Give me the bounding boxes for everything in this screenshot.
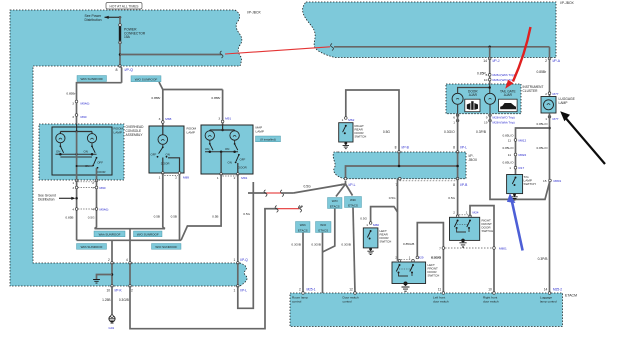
ground right rear switch <box>344 142 347 145</box>
svg-text:0.85Br: 0.85Br <box>211 96 220 100</box>
pin 1 R17 <box>514 166 517 169</box>
pin band2 10 IPK <box>111 285 114 288</box>
tag W/I SUNROOF r2 <box>77 244 107 250</box>
op overhead console dashed box <box>39 124 124 180</box>
svg-text:M24: M24 <box>473 211 479 215</box>
wire H2 sunroof bus <box>77 239 181 241</box>
svg-text:AJAR: AJAR <box>504 93 513 97</box>
wire branch to tailgate switch <box>516 128 550 175</box>
wire 0.85R to cluster <box>489 59 491 85</box>
svg-text:0.85Br: 0.85Br <box>66 92 75 96</box>
svg-text:0.85Br: 0.85Br <box>151 96 160 100</box>
pin rightfront 1 <box>469 215 472 218</box>
pin 8 M28-I with trip <box>488 74 491 77</box>
wire fuse top stub <box>119 16 121 25</box>
svg-text:1: 1 <box>342 118 344 122</box>
svg-text:W/O: W/O <box>320 223 327 227</box>
pin 8 I/P-Q <box>119 65 122 68</box>
svg-text:door switch: door switch <box>483 300 499 304</box>
lamp luggage box <box>541 97 556 114</box>
switch left front door box <box>392 262 426 284</box>
connector dashed leftfront <box>401 258 412 260</box>
ground G01 chassis <box>109 316 115 322</box>
wire dark right of red <box>281 192 293 194</box>
break squiggle right lobe <box>331 44 334 51</box>
pin leftfront 2 <box>398 260 401 263</box>
svg-text:0.3P/B: 0.3P/B <box>476 130 487 134</box>
pin ETACM 10 <box>493 292 496 295</box>
connector dashed M54 <box>78 208 95 210</box>
svg-text:I/P-J: I/P-J <box>493 59 500 63</box>
pin 2 I/P-A <box>548 57 551 60</box>
switch room arm <box>162 146 164 148</box>
wire With ETACS lower chain <box>302 233 304 294</box>
svg-text:JBOX: JBOX <box>469 158 478 162</box>
ground left front switch <box>404 282 408 286</box>
svg-text:2: 2 <box>545 59 547 63</box>
svg-text:0.3G/B: 0.3G/B <box>291 243 301 247</box>
svg-text:lamp control: lamp control <box>540 300 557 304</box>
wire map bus1 <box>205 151 238 153</box>
junction luggage branch <box>548 127 551 130</box>
svg-text:2: 2 <box>234 176 236 180</box>
wire band internal <box>346 166 458 179</box>
svg-text:OFF: OFF <box>97 161 103 165</box>
lamp room <box>158 135 168 145</box>
wire long bottom return <box>130 209 265 329</box>
svg-text:0.5G: 0.5G <box>360 217 367 221</box>
pin 3 M54 upper <box>75 100 78 103</box>
wire map exit2 <box>237 163 239 174</box>
wire tail gate 0.3P/B down <box>490 114 550 200</box>
pin cluster 1 <box>456 119 459 122</box>
junction band b <box>456 165 459 168</box>
svg-text:control: control <box>292 300 302 304</box>
wire cluster internal feed <box>489 84 491 93</box>
svg-text:SWITCH: SWITCH <box>482 229 494 233</box>
svg-text:W/O SUNROOF: W/O SUNROOF <box>135 77 158 81</box>
pin console 2 <box>95 179 98 182</box>
wire console lamp bus <box>60 131 92 133</box>
connector dashed console <box>78 181 95 183</box>
svg-text:M28-I(With Trip): M28-I(With Trip) <box>493 121 515 125</box>
svg-text:ON: ON <box>166 153 170 157</box>
tag W/O ETACS upper <box>328 198 343 209</box>
pin 7 connector <box>442 247 445 250</box>
wire to chassis ground <box>111 286 113 316</box>
wire pin7 diagonal left <box>293 181 345 193</box>
junction cluster <box>488 86 491 89</box>
pin M54 b <box>95 208 98 211</box>
switch map right arm <box>234 143 236 145</box>
wire luggage down <box>549 113 551 293</box>
connector dashed M801 <box>445 247 493 249</box>
svg-text:DOOR: DOOR <box>238 165 247 169</box>
wire door-ajar lamp down <box>457 104 459 113</box>
svg-text:M812: M812 <box>519 138 527 142</box>
wire console feed <box>76 124 78 132</box>
wire to room lamp M88 <box>162 90 164 127</box>
wire console lamp stubs <box>59 132 61 134</box>
switch map left arm <box>209 143 211 145</box>
junction console <box>75 130 78 133</box>
pin band bottom 7 <box>398 177 401 180</box>
svg-text:I/P-A: I/P-A <box>553 59 561 63</box>
svg-text:M54(I): M54(I) <box>100 207 109 211</box>
svg-text:1: 1 <box>545 117 547 121</box>
svg-text:ETACS: ETACS <box>330 204 340 208</box>
wire luggage feed <box>549 59 551 97</box>
ground distribution <box>93 280 100 284</box>
op cluster box <box>446 84 521 114</box>
svg-text:0.5G: 0.5G <box>383 130 391 134</box>
svg-text:1: 1 <box>466 211 468 215</box>
svg-text:0.5G: 0.5G <box>243 212 250 216</box>
svg-text:0.85B: 0.85B <box>65 216 73 220</box>
break squiggle etacs2 l <box>275 206 278 213</box>
svg-text:I/P-L: I/P-L <box>460 146 467 150</box>
tag W/O SUNROOF <box>131 76 161 82</box>
svg-text:G01: G01 <box>109 326 115 330</box>
switch right rear door box <box>339 123 353 142</box>
wire see-power branch <box>105 16 121 18</box>
pin ETACM 14 M25-2 <box>548 292 551 295</box>
svg-text:I/P-JBOX: I/P-JBOX <box>560 1 575 5</box>
lamp DOOR AJAR indicator <box>452 93 463 104</box>
svg-text:M88: M88 <box>165 117 171 121</box>
wire console bus2 <box>60 156 92 158</box>
lamp map right <box>230 131 239 140</box>
svg-text:I/P-K: I/P-K <box>115 288 123 292</box>
svg-text:0.3P/B: 0.3P/B <box>538 257 549 261</box>
pin 3 M91 <box>221 120 224 123</box>
pin band top 8 I/P-B <box>398 151 401 154</box>
ground tailgate switch <box>513 193 516 196</box>
svg-text:0.5G: 0.5G <box>389 196 396 200</box>
pin map 2 <box>237 173 240 176</box>
svg-text:M60: M60 <box>373 223 379 227</box>
svg-text:10: 10 <box>488 288 492 292</box>
svg-text:I/P-B: I/P-B <box>460 183 468 187</box>
svg-text:0.3G/O: 0.3G/O <box>444 130 455 134</box>
wire w/o-sunroof branch <box>159 82 163 90</box>
switch T/G arm <box>515 177 517 179</box>
wire console left drop <box>76 181 78 241</box>
pin 3 M90 upper <box>75 114 78 117</box>
svg-text:M90: M90 <box>100 186 106 190</box>
svg-text:I/P-B: I/P-B <box>402 146 410 150</box>
svg-text:1: 1 <box>217 176 219 180</box>
connector dashed rightfront <box>459 214 469 216</box>
svg-text:I/P-JBOX: I/P-JBOX <box>247 11 262 15</box>
svg-text:19: 19 <box>484 121 488 125</box>
pin M54 a <box>75 208 78 211</box>
wire stub to W/O ETACS tag <box>336 184 346 197</box>
svg-text:HOT AT ALL TIMES: HOT AT ALL TIMES <box>110 4 140 8</box>
svg-text:I/P-Q: I/P-Q <box>240 258 248 262</box>
svg-text:M91: M91 <box>225 117 231 121</box>
wire map feed <box>222 125 224 130</box>
wire rightfront pin1 to etacm 10 <box>470 206 494 293</box>
wire H1 sunroof bus <box>95 228 166 230</box>
wire With ETACS chain <box>353 208 355 294</box>
wire W/O ETACS chain <box>323 209 335 253</box>
junction band a <box>398 165 401 168</box>
svg-text:With SUNROOF: With SUNROOF <box>81 245 103 249</box>
junction band2 <box>111 273 114 276</box>
svg-text:3: 3 <box>218 117 220 121</box>
wire map bus <box>210 129 235 131</box>
svg-text:AJAR: AJAR <box>469 93 478 97</box>
wire H2 to band pin2 <box>111 240 113 263</box>
svg-text:CLUSTER: CLUSTER <box>523 89 539 93</box>
op room lamp inner box <box>52 127 112 175</box>
pin ETACM 12 <box>354 292 357 295</box>
svg-text:ON: ON <box>205 147 209 151</box>
wire lobe2 drop left <box>489 47 491 59</box>
svg-text:OFF: OFF <box>240 158 246 162</box>
wire red interrupt etacs2 dark-left <box>264 208 277 210</box>
pin 3 M88 <box>162 121 165 124</box>
switch console door arm <box>96 157 98 159</box>
wire etacs2 curl <box>299 206 303 209</box>
arrow blue annotation <box>512 200 523 251</box>
pin band bottom 8 I/P-B <box>456 177 459 180</box>
junction map <box>221 129 224 132</box>
svg-text:W/O SUNROOF: W/O SUNROOF <box>155 245 177 249</box>
svg-text:ON: ON <box>225 147 229 151</box>
wire console door bus <box>77 165 94 167</box>
svg-text:2: 2 <box>299 288 301 292</box>
svg-text:ETACS: ETACS <box>348 203 358 207</box>
wire console right exit <box>96 168 98 181</box>
lamp room lamp box <box>149 126 184 173</box>
svg-text:M28-I(W/O Trip): M28-I(W/O Trip) <box>493 78 515 82</box>
svg-text:M801: M801 <box>554 179 562 183</box>
svg-text:8: 8 <box>486 73 488 77</box>
wire with-sunroof branch <box>77 83 122 124</box>
svg-text:0.85G/B: 0.85G/B <box>403 242 414 246</box>
wire lobe2 horizontal <box>334 46 550 48</box>
pin 10 M28-I w/o trip <box>488 78 491 81</box>
svg-text:ON: ON <box>56 149 60 153</box>
tag W/O SUNROOF r2 <box>152 244 182 250</box>
svg-text:SWITCH: SWITCH <box>355 135 367 139</box>
break squiggle etacs1 r <box>281 190 284 197</box>
switch right rear arm <box>345 125 347 127</box>
svg-text:With SUNROOF: With SUNROOF <box>99 232 121 236</box>
wire console lamp bottoms <box>59 143 61 146</box>
svg-text:Distribution: Distribution <box>38 198 55 202</box>
wire red interrupt top <box>225 47 330 54</box>
tag If installed <box>256 136 281 142</box>
wire stub to With ETACS tag <box>346 184 353 196</box>
svg-text:M25-1: M25-1 <box>307 288 316 292</box>
svg-text:1: 1 <box>234 258 236 262</box>
switch right front arms <box>457 220 459 222</box>
svg-text:1: 1 <box>409 255 411 259</box>
pin luggage 1 M77 <box>548 116 551 119</box>
svg-text:0.85L/O: 0.85L/O <box>536 122 548 126</box>
svg-text:ASSEMBLY: ASSEMBLY <box>126 133 144 137</box>
pin band2 1 IPQ <box>237 262 240 265</box>
svg-text:12: 12 <box>349 288 353 292</box>
svg-text:1: 1 <box>453 121 455 125</box>
svg-text:9: 9 <box>486 116 488 120</box>
wire left rear switch feed <box>371 207 398 223</box>
ground left rear switch <box>369 248 372 251</box>
svg-text:0.5G: 0.5G <box>88 216 95 220</box>
wire to map lamp M91 <box>222 90 224 126</box>
tag With ETACS upper <box>345 197 362 208</box>
wire right rear door switch feed <box>346 90 399 152</box>
switch console left arm <box>60 145 62 147</box>
svg-text:DOOR: DOOR <box>97 170 106 174</box>
svg-text:I/P-Q: I/P-Q <box>125 68 134 72</box>
ground right front switch <box>461 239 465 243</box>
svg-text:M90: M90 <box>81 115 87 119</box>
svg-text:3: 3 <box>72 186 74 190</box>
svg-text:1: 1 <box>366 223 368 227</box>
svg-text:0.5G: 0.5G <box>448 196 455 200</box>
pin band2 2b <box>129 285 132 288</box>
junction top feed <box>119 16 122 19</box>
wire dark left of red <box>248 192 266 194</box>
pin band2 4 <box>129 262 132 265</box>
wire room exit2 L <box>168 158 180 173</box>
svg-text:R17: R17 <box>519 166 525 170</box>
break squiggle etacs1 l <box>264 190 267 197</box>
svg-text:W/O SUNROOF: W/O SUNROOF <box>137 232 159 236</box>
svg-text:ETACM: ETACM <box>565 294 577 298</box>
svg-text:0.5G: 0.5G <box>304 185 312 189</box>
svg-text:door switch: door switch <box>433 300 449 304</box>
pin 15 M801 <box>549 179 552 182</box>
svg-text:M822: M822 <box>519 153 527 157</box>
icon door ajar <box>465 99 480 112</box>
svg-text:0.85L/O: 0.85L/O <box>502 160 514 164</box>
junction map bus <box>209 151 212 154</box>
svg-text:1: 1 <box>72 181 74 185</box>
svg-text:I/P-L: I/P-L <box>240 288 247 292</box>
connector dashed band bottom <box>400 180 458 182</box>
svg-text:ON: ON <box>84 149 88 153</box>
connector dashed M90 <box>78 187 95 189</box>
svg-text:M28-I(W/O Trip): M28-I(W/O Trip) <box>493 116 515 120</box>
svg-text:1: 1 <box>159 175 161 179</box>
wire band2 U-turn <box>238 182 254 308</box>
pin M801 15 b <box>493 247 496 250</box>
svg-text:11: 11 <box>508 153 511 157</box>
tag W/I SUNROOF r1 <box>94 231 125 237</box>
pin leftfront 1 <box>412 260 415 263</box>
svg-text:SWITCH: SWITCH <box>428 274 440 278</box>
svg-text:11: 11 <box>438 288 442 292</box>
junction room contacts <box>157 156 159 158</box>
svg-text:With: With <box>350 198 356 202</box>
pin 14 I/P-J <box>488 57 491 60</box>
svg-text:10: 10 <box>106 288 110 292</box>
svg-text:2: 2 <box>108 258 110 262</box>
tag With SUNROOF <box>77 76 107 82</box>
svg-text:3: 3 <box>72 101 74 105</box>
svg-text:0.5B: 0.5B <box>171 215 177 219</box>
pin 1 M62 <box>345 117 348 120</box>
svg-text:With: With <box>300 223 306 227</box>
node I/P-JBOX right lobe <box>303 2 556 58</box>
svg-text:OFF: OFF <box>151 153 157 157</box>
svg-text:M89: M89 <box>183 175 189 179</box>
wire red interrupt etacs2 <box>278 208 300 210</box>
svg-text:2: 2 <box>545 92 547 96</box>
svg-text:0.85L/O: 0.85L/O <box>502 134 514 138</box>
node hot-feed region (I/P-JBOX left lobe + left column + bottom I/P band) <box>10 10 247 286</box>
svg-text:2: 2 <box>395 255 397 259</box>
junction main feed <box>119 53 122 56</box>
connector dashed map <box>223 175 237 177</box>
junction lobe2 <box>488 46 491 49</box>
icon tail gate car <box>499 99 517 112</box>
wire band2 ipq through <box>237 263 239 286</box>
pin console 1 <box>75 179 78 182</box>
switch right front door box <box>450 217 480 240</box>
pin band2 1 IPL <box>237 285 240 288</box>
svg-text:10: 10 <box>484 78 488 82</box>
pin ETACM 2 M25-1 <box>302 292 305 295</box>
tag W/O ETACS lower <box>316 222 332 233</box>
svg-text:8: 8 <box>395 146 397 150</box>
svg-text:M801: M801 <box>499 246 507 250</box>
svg-text:0.5B: 0.5B <box>154 215 160 219</box>
svg-text:M28-I(With Trip): M28-I(With Trip) <box>493 73 515 77</box>
wire map lamp bottoms <box>209 140 211 143</box>
svg-text:4: 4 <box>72 207 74 211</box>
svg-text:0.5B: 0.5B <box>212 215 218 219</box>
svg-text:1: 1 <box>509 166 511 170</box>
pin band bottom 7 I/P-L <box>344 177 347 180</box>
wire pin8 drop <box>120 66 122 83</box>
wire band2 ground drop <box>111 263 113 286</box>
svg-text:M77: M77 <box>553 117 559 121</box>
pin M90 b <box>95 186 98 189</box>
wire console right drop <box>95 181 97 229</box>
svg-text:8: 8 <box>116 68 118 72</box>
pin 11 M822 <box>514 153 517 156</box>
svg-text:3: 3 <box>72 115 74 119</box>
pin ETACM 11 <box>442 292 445 295</box>
break squiggle left lobe <box>220 51 223 58</box>
wire red interrupt etacs1 <box>266 192 281 194</box>
svg-text:15: 15 <box>543 179 547 183</box>
svg-text:2: 2 <box>175 175 177 179</box>
switch left rear arm <box>370 230 372 232</box>
arrow red annotation <box>513 27 531 82</box>
tag With ETACS lower <box>296 222 311 233</box>
svg-text:LAMP: LAMP <box>559 101 569 105</box>
node HOT AT ALL TIMES box <box>106 3 142 10</box>
node I/P-JBOX middle band <box>333 152 466 179</box>
wire main feed horizontal <box>120 54 222 56</box>
pin room 1 <box>162 172 165 175</box>
svg-text:0.85L/O: 0.85L/O <box>502 146 514 150</box>
svg-text:8: 8 <box>453 146 455 150</box>
wire fuse to junction <box>119 43 121 67</box>
svg-text:6: 6 <box>453 116 455 120</box>
svg-text:11: 11 <box>508 138 511 142</box>
svg-text:0.3G/B: 0.3G/B <box>119 298 129 302</box>
svg-text:With SUNROOF: With SUNROOF <box>80 77 103 81</box>
svg-text:8: 8 <box>453 183 455 187</box>
